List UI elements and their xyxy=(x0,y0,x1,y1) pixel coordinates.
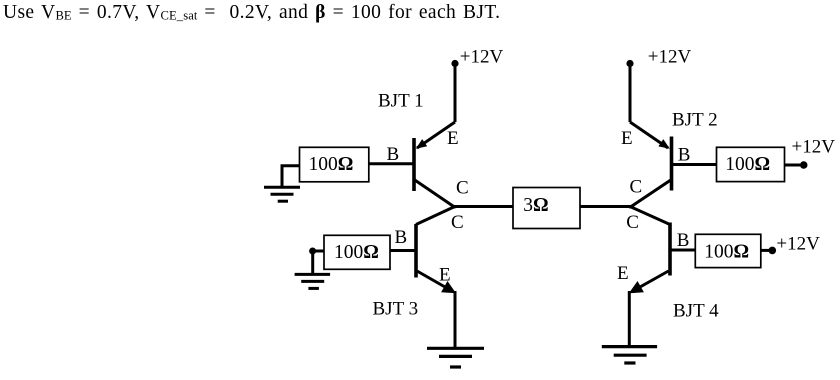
svg-text:100Ω: 100Ω xyxy=(334,242,379,263)
wire: junction dot to ground (vertical) xyxy=(311,251,314,274)
wire: BJT4 collector diagonal from node xyxy=(630,207,670,225)
resistor R3 100ohm (BJT2 base) xyxy=(717,147,785,181)
wire: R4 to +12V dot xyxy=(761,249,769,252)
svg-text:C: C xyxy=(456,178,469,199)
svg-text:100Ω: 100Ω xyxy=(309,154,354,175)
svg-text:+12V: +12V xyxy=(460,46,504,67)
resistor R5 3ohm (load between collector nodes) xyxy=(513,188,580,229)
wire: 3 ohm resistor to node B (horizontal) xyxy=(580,205,631,208)
wire: BJT2 emitter diagonal xyxy=(630,122,668,148)
wire: BJT4 base to R4 xyxy=(671,249,696,252)
svg-text:C: C xyxy=(630,177,643,198)
wire: BJT4 emitter to ground (vertical) xyxy=(628,291,631,346)
svg-text:BJT 3: BJT 3 xyxy=(373,299,419,320)
junction dot left of R2 xyxy=(309,248,316,255)
svg-text:B: B xyxy=(395,227,408,248)
transistor Q2 (BJT 2) base bar xyxy=(670,137,674,191)
wire: BJT3 base to R2 xyxy=(390,249,415,252)
power +12V terminal dot (right of R4) xyxy=(769,247,777,255)
svg-text:+12V: +12V xyxy=(648,46,692,67)
resistor R1 100ohm (BJT1 base) xyxy=(300,147,369,182)
svg-text:100Ω: 100Ω xyxy=(704,241,749,262)
wire: BJT3 emitter to ground (vertical) xyxy=(454,291,457,347)
wire: R3 to +12V dot xyxy=(785,164,801,167)
resistor R4 100ohm (BJT4 base) xyxy=(695,234,761,267)
title line: conditions text xyxy=(3,2,500,24)
wire: BJT1 collector diagonal to node xyxy=(414,180,455,208)
transistor Q3 (BJT 3, NPN) emitter arrowhead xyxy=(441,281,456,293)
svg-text:+12V: +12V xyxy=(776,233,820,254)
power +12V terminal dot (BJT1 emitter supply) xyxy=(451,60,458,67)
wire: node A to 3 ohm resistor (left horizontal) xyxy=(454,205,513,208)
transistor Q1 (BJT 1, PNP) emitter arrowhead xyxy=(416,139,427,149)
svg-text:C: C xyxy=(451,212,464,233)
wire: BJT1 base to R1 xyxy=(369,162,413,165)
ground (below BJT3 emitter) xyxy=(427,348,484,367)
wire: R1 to ground (horizontal + vertical) xyxy=(282,166,300,187)
wire: +12V to BJT2 emitter (vertical) xyxy=(629,64,632,123)
svg-text:E: E xyxy=(621,128,633,149)
wire: BJT3 emitter diagonal xyxy=(417,271,452,291)
transistor Q2 (BJT 2, PNP) emitter arrowhead xyxy=(658,139,669,149)
node A: collectors of BJT1/BJT3 joined xyxy=(453,205,456,208)
wire: R2 to junction dot xyxy=(313,250,324,253)
power +12V terminal dot (right of R3) xyxy=(800,161,808,169)
ground (below BJT4 emitter) xyxy=(602,347,657,363)
transistor Q4 (BJT 4) base bar xyxy=(668,223,672,276)
wire: BJT2 collector diagonal to node xyxy=(630,180,672,208)
svg-text:3Ω: 3Ω xyxy=(523,195,548,216)
svg-text:B: B xyxy=(677,230,690,251)
svg-text:B: B xyxy=(387,144,400,165)
svg-text:B: B xyxy=(678,145,691,166)
wire: BJT2 base to R3 xyxy=(672,163,717,166)
wire: BJT3 collector diagonal from node xyxy=(416,207,455,225)
svg-text:BJT 4: BJT 4 xyxy=(673,301,719,322)
svg-text:E: E xyxy=(447,128,459,149)
svg-text:BJT 2: BJT 2 xyxy=(672,110,718,131)
svg-text:E: E xyxy=(617,263,629,284)
resistor R2 100ohm (BJT3 base) xyxy=(324,235,390,269)
node B: collectors of BJT2/BJT4 joined xyxy=(628,205,631,208)
svg-text:+12V: +12V xyxy=(792,137,836,158)
transistor Q1 (BJT 1) base bar xyxy=(412,138,416,191)
svg-text:100Ω: 100Ω xyxy=(725,154,770,175)
wire: +12V to BJT1 emitter (vertical) xyxy=(454,64,457,123)
ground (left of R1) xyxy=(264,187,300,201)
ground (below R2 junction) xyxy=(295,274,331,288)
wire: BJT4 emitter diagonal xyxy=(632,271,669,292)
transistor Q3 (BJT 3) base bar xyxy=(414,224,418,278)
svg-text:C: C xyxy=(626,212,639,233)
svg-text:BJT 1: BJT 1 xyxy=(378,91,424,112)
svg-text:E: E xyxy=(439,265,451,286)
transistor Q4 (BJT 4, NPN) emitter arrowhead xyxy=(629,281,644,293)
power +12V terminal dot (BJT2 emitter supply) xyxy=(626,60,633,67)
wire: BJT1 emitter diagonal xyxy=(417,122,455,148)
